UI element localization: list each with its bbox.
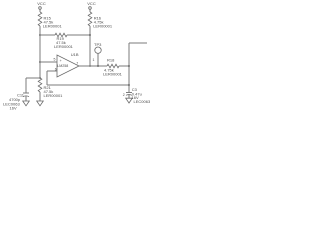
wire R21 to ground xyxy=(39,92,41,101)
resistor R21 47.5k xyxy=(38,78,63,98)
wire VCC2 to R16 xyxy=(89,9,91,12)
svg-text:LER00001: LER00001 xyxy=(54,44,74,49)
capacitor C11 4700p xyxy=(3,92,29,110)
svg-text:16V: 16V xyxy=(10,106,17,111)
node junction R18/outrail xyxy=(128,65,130,67)
node junction R19/R16 xyxy=(89,34,91,36)
node junction pin5/rail xyxy=(39,61,41,63)
power VCC right xyxy=(87,1,96,9)
wire output rail vertical xyxy=(128,43,130,92)
wire C11 to ground xyxy=(25,96,27,101)
node junction feedback/outrail xyxy=(128,84,130,86)
svg-text:LM258: LM258 xyxy=(57,64,68,68)
svg-text:LER00001: LER00001 xyxy=(44,93,64,98)
wire op-amp output xyxy=(79,65,107,67)
svg-text:U1B: U1B xyxy=(71,52,79,57)
node junction C11/R21 xyxy=(39,77,41,79)
svg-text:R18: R18 xyxy=(107,57,115,62)
svg-text:+: + xyxy=(60,59,62,63)
wire R19 left lead xyxy=(40,34,55,36)
wire output to edge xyxy=(129,42,147,44)
node junction TP3/output xyxy=(97,65,99,67)
testpoint TP3 xyxy=(94,42,102,54)
svg-text:1: 1 xyxy=(93,58,95,62)
wire VCC1 to R15 xyxy=(39,9,41,12)
wire R19 right lead xyxy=(67,34,90,36)
power VCC left xyxy=(37,1,46,9)
op-amp U1B LM258 xyxy=(57,52,79,77)
wire C11 stem xyxy=(25,78,27,93)
svg-text:7: 7 xyxy=(76,62,78,66)
ground C3 xyxy=(126,98,133,103)
wire IN+ vertical rail xyxy=(39,26,41,78)
svg-text:LER00001: LER00001 xyxy=(103,71,123,76)
svg-text:TP3: TP3 xyxy=(94,42,102,47)
wire C3 to ground xyxy=(128,95,130,98)
svg-text:LER00001: LER00001 xyxy=(93,24,113,29)
capacitor C3 0.47u xyxy=(123,87,151,104)
svg-text:LEC0063: LEC0063 xyxy=(134,99,151,104)
node junction R16/output xyxy=(89,65,91,67)
ground C11 xyxy=(23,101,30,106)
wire pin6 feedback left xyxy=(47,70,57,72)
resistor R16 4.75k xyxy=(88,12,113,29)
resistor R18 4.75k xyxy=(103,57,123,76)
svg-text:2: 2 xyxy=(123,93,125,97)
svg-text:VCC: VCC xyxy=(87,1,96,6)
wire R18 right lead xyxy=(119,65,129,67)
svg-text:LER00001: LER00001 xyxy=(43,24,63,29)
wire feedback bottom run xyxy=(47,84,129,86)
svg-text:VCC: VCC xyxy=(37,1,46,6)
wire feedback down xyxy=(46,71,48,85)
wire R16 bottom to output line xyxy=(89,26,91,66)
wire C11 branch horizontal xyxy=(26,77,40,79)
ground R21 xyxy=(37,101,44,106)
node junction R19/rail xyxy=(39,34,41,36)
resistor R19 47.5k xyxy=(54,33,74,49)
wire pin5 input xyxy=(40,61,57,63)
wire TP3 stem xyxy=(97,53,99,66)
svg-text:5: 5 xyxy=(54,58,56,62)
resistor R15 47.5k xyxy=(38,12,62,29)
